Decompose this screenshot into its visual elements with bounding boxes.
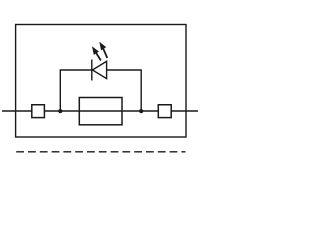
LED emission arrow 2: [99, 42, 107, 58]
wire: LED branch right (from LED anode, down to node B): [107, 70, 142, 111]
junction node B: [139, 109, 143, 113]
main through-wire: [2, 110, 198, 112]
dashed marker / mounting rail line: [16, 151, 185, 153]
LED D1 triangle (anode, pointing left): [93, 61, 107, 78]
fuse F1 (rectangle over wire): [79, 98, 122, 125]
LED emission arrow 1: [92, 46, 101, 60]
wire: LED branch left (up from node A, across to LED cathode): [60, 70, 91, 111]
left terminal clamp contact: [32, 105, 45, 118]
right terminal clamp contact: [158, 105, 171, 118]
junction node A: [58, 109, 62, 113]
LED D1 cathode bar: [91, 60, 93, 81]
terminal block body outline: [16, 25, 186, 138]
